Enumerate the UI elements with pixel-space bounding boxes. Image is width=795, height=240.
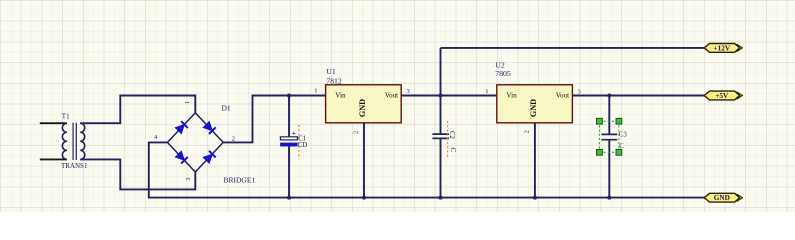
svg-text:GND: GND: [529, 99, 538, 117]
svg-text:3: 3: [185, 177, 192, 180]
svg-text:2: 2: [524, 130, 531, 133]
svg-text:1: 1: [485, 88, 488, 95]
svg-text:3: 3: [578, 88, 581, 95]
svg-text:C: C: [619, 143, 624, 150]
svg-text:7812: 7812: [326, 77, 342, 86]
svg-text:1: 1: [314, 88, 317, 95]
svg-text:3: 3: [407, 88, 410, 95]
svg-text:C: C: [449, 148, 456, 153]
svg-text:BRIDGE1: BRIDGE1: [224, 176, 256, 185]
svg-text:CD: CD: [298, 142, 308, 149]
svg-text:C3: C3: [619, 131, 628, 138]
svg-text:1: 1: [184, 101, 191, 104]
svg-text:2: 2: [353, 131, 360, 134]
svg-text:Vout: Vout: [385, 91, 398, 99]
svg-text:7805: 7805: [495, 69, 511, 78]
svg-text:U1: U1: [326, 67, 336, 76]
svg-text:2: 2: [232, 135, 235, 142]
svg-text:D1: D1: [222, 104, 231, 113]
svg-text:GND: GND: [714, 193, 730, 202]
svg-text:4: 4: [154, 134, 158, 141]
svg-text:TRANS1: TRANS1: [61, 162, 88, 170]
svg-text:+12V: +12V: [713, 43, 730, 52]
svg-text:Vout: Vout: [556, 91, 569, 99]
svg-text:+: +: [292, 129, 297, 138]
svg-text:+5V: +5V: [715, 91, 729, 100]
svg-text:C2: C2: [448, 131, 455, 140]
svg-text:Vin: Vin: [506, 91, 517, 99]
svg-text:T1: T1: [62, 112, 70, 120]
svg-text:GND: GND: [358, 99, 367, 117]
svg-text:Vin: Vin: [335, 91, 346, 99]
